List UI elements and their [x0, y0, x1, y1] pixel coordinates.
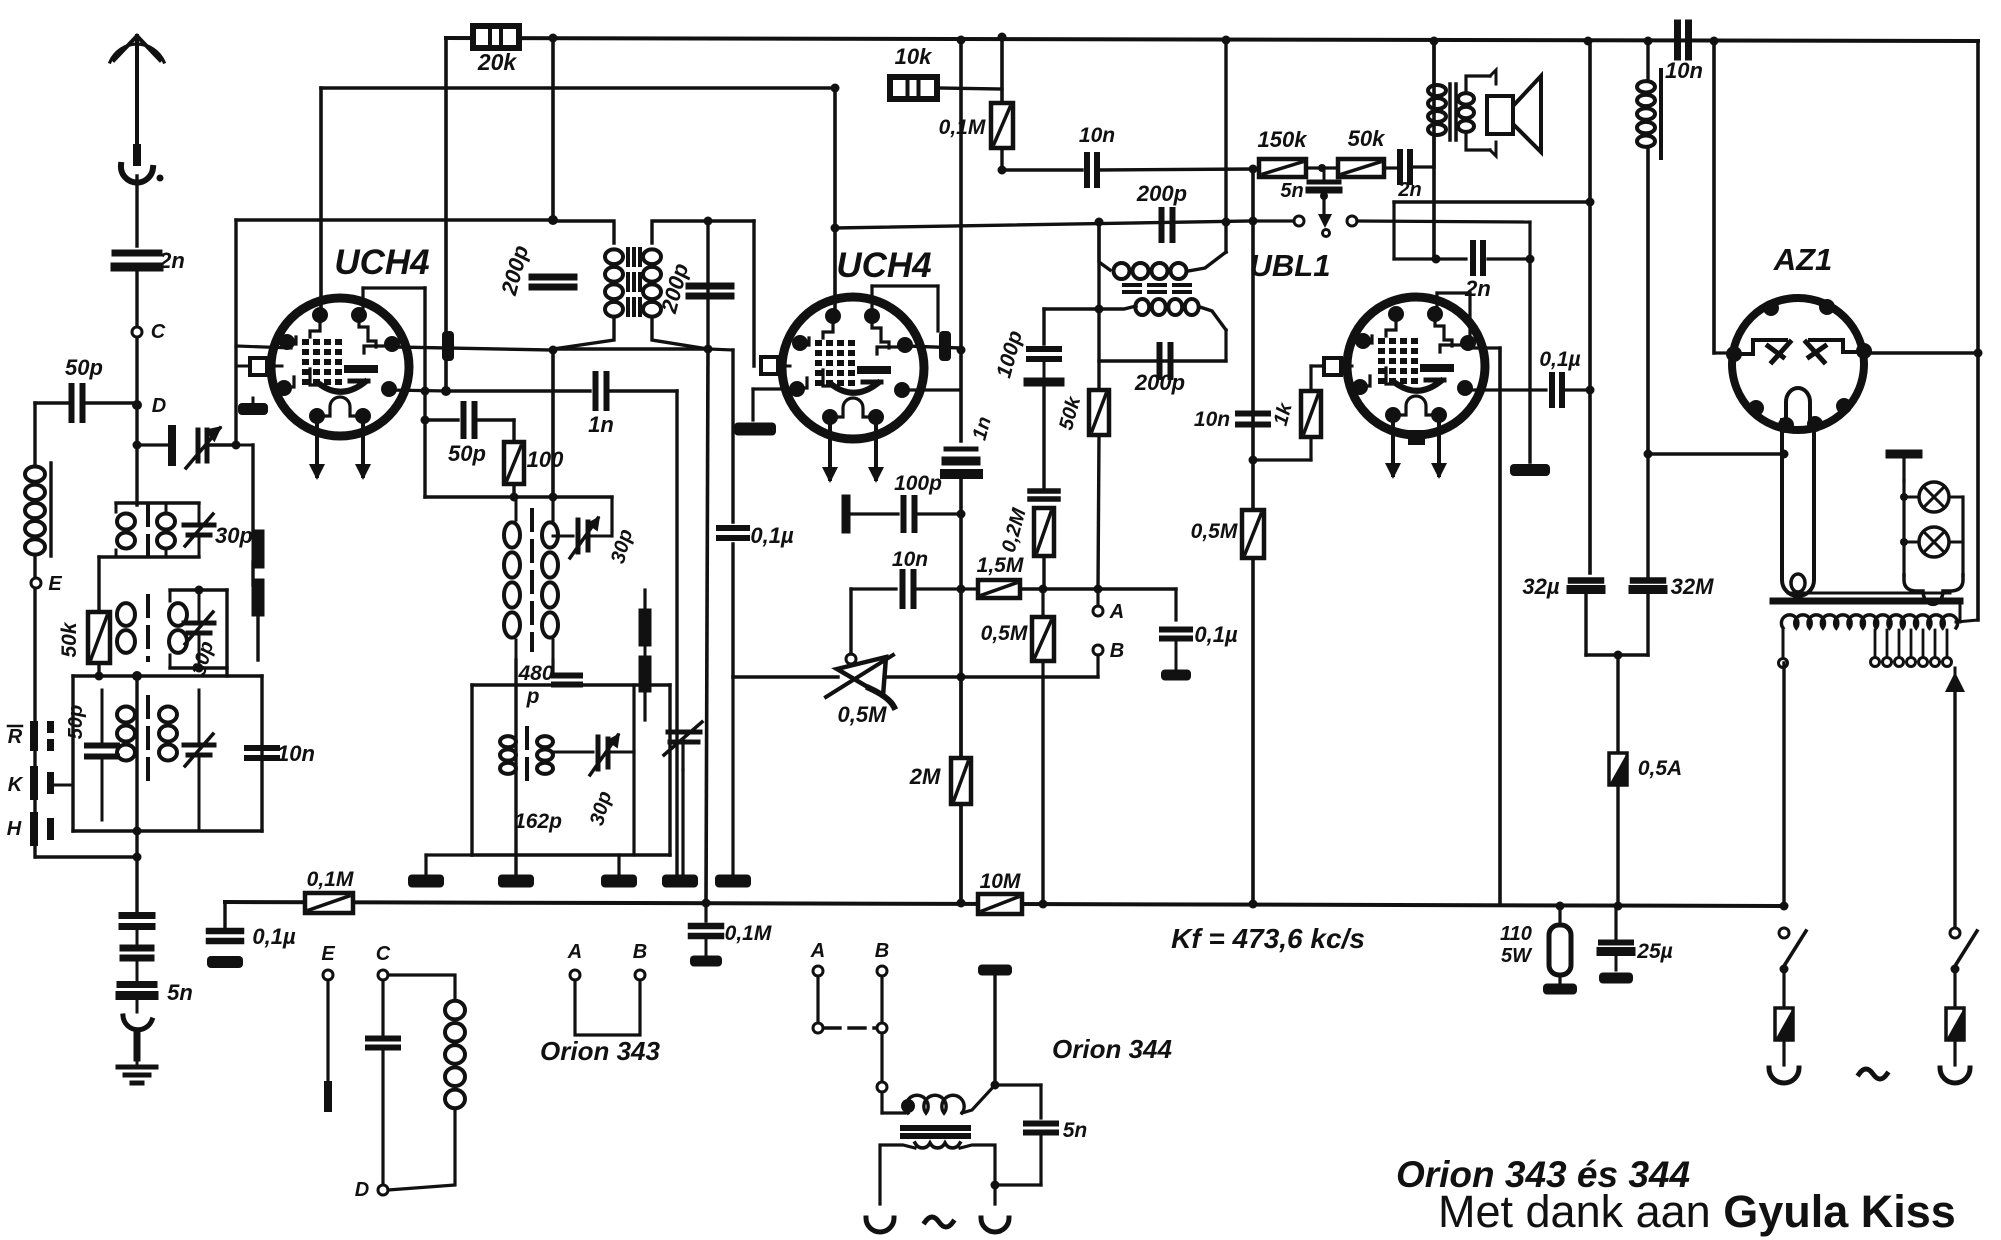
wire tube2 pi down: [936, 286, 939, 331]
wire tube1 pi down x425: [423, 288, 426, 497]
osc coil M2: [500, 736, 516, 747]
wire mains to rail: [1956, 620, 1978, 622]
wire 50p left: [35, 401, 71, 404]
wire 2n to x1434: [1411, 165, 1434, 168]
svg-text:200p: 200p: [1136, 181, 1187, 206]
svg-text:5n: 5n: [167, 980, 193, 1005]
wire C-D cap down: [381, 1048, 384, 1185]
ant transformer L2: [170, 588, 227, 591]
wire left column down: [135, 831, 138, 912]
capacitor 0,1M under bus: [691, 923, 721, 930]
svg-text:0,5M: 0,5M: [838, 702, 888, 727]
wire x1253 long vertical: [1251, 169, 1255, 903]
wire gang 1: [251, 445, 254, 533]
trimmer main tuning 2: [668, 730, 700, 735]
junction T1 top rail: [549, 34, 558, 43]
wire x1043 down: [1041, 677, 1044, 904]
svg-text:25µ: 25µ: [1636, 940, 1672, 963]
tube UCH4 #1 (U1): [271, 298, 409, 436]
chassis bar 2: [498, 875, 534, 888]
junction x425 y391: [421, 387, 430, 396]
tube UBL1 (U3) heater leads: [1391, 417, 1395, 475]
wire ubl1 cathode: [1464, 388, 1546, 391]
svg-text:UCH4: UCH4: [836, 246, 931, 285]
svg-text:A: A: [810, 940, 825, 962]
pot wiper terminal: [846, 654, 856, 664]
wire x1648 lower: [1646, 454, 1649, 578]
wire x1099 down: [1097, 222, 1100, 390]
node E terminal: [31, 578, 41, 588]
wire 0,5M res bottom: [1041, 661, 1044, 677]
wire M1 right down: [551, 660, 554, 676]
wire K to box: [54, 784, 73, 787]
junction T1 right top: [704, 217, 713, 226]
bar 344 top: [978, 965, 1012, 976]
junction bus x1253: [1249, 900, 1258, 909]
wire 10k right: [937, 88, 1002, 89]
wire E down to jack bus: [33, 589, 36, 857]
svg-text:110: 110: [1500, 923, 1532, 945]
wire 50k to A: [1098, 435, 1099, 589]
capacitor 25u: [1614, 906, 1617, 938]
svg-text:0,5A: 0,5A: [1638, 757, 1682, 780]
wire gang2 top: [643, 590, 646, 615]
svg-text:2n: 2n: [158, 248, 185, 273]
wire x1002: [1000, 37, 1004, 103]
wire L1 to 50k: [97, 557, 100, 612]
wire 0,2M down: [1042, 556, 1045, 589]
wire lamp top: [1902, 458, 1905, 481]
wire mains right down: [1953, 690, 1956, 930]
wire tube2 pi stub: [870, 286, 873, 314]
junction L2 bottom: [195, 664, 204, 673]
dial lamps bar: [1890, 450, 1918, 459]
junction x961 top: [957, 36, 966, 45]
wire main vertical through L3: [135, 676, 138, 831]
wire T2 to 100p: [1042, 309, 1045, 344]
wire mains right: [1959, 601, 1962, 622]
wire trimmer right: [592, 535, 612, 538]
wire ubl1 anode: [1466, 346, 1500, 349]
wire to x1590: [1563, 388, 1590, 391]
svg-text:B: B: [633, 941, 647, 963]
junction x1648 top: [1644, 37, 1653, 46]
wire D down to L1: [135, 405, 138, 505]
fuse mains 1: [1775, 1008, 1793, 1040]
svg-text:50p: 50p: [448, 441, 486, 466]
wire 5n down: [1322, 196, 1325, 221]
chassis bar 5: [715, 875, 751, 888]
wire 50k to 2n: [1384, 166, 1396, 169]
junction x1099 top: [1095, 218, 1104, 227]
capacitor 200p T1 left: [532, 274, 574, 281]
wire screen to tube2: [833, 88, 837, 314]
junction filament left: [1780, 450, 1789, 459]
resistor 50k left: [88, 612, 110, 663]
trimmer 30p L1: [184, 523, 214, 528]
bar 0,1u det: [1161, 670, 1191, 681]
ground left column: [118, 1065, 156, 1070]
anode bar tube 1: [442, 331, 454, 361]
wire x1394: [1392, 202, 1395, 259]
speaker frame: [1490, 70, 1496, 84]
grid box tube 1: [236, 218, 553, 221]
tube AZ1 (U4): [1732, 298, 1864, 430]
bar ubl1 ground: [1510, 464, 1550, 476]
wire tube1 triode grid: [389, 390, 446, 391]
junction x1714 top: [1710, 37, 1719, 46]
wire D to 50p: [86, 401, 137, 404]
junction x1434 y259: [1432, 255, 1441, 264]
svg-text:32µ: 32µ: [1522, 574, 1559, 599]
junction x835 y228: [831, 224, 840, 233]
wire long vertical x677: [675, 391, 678, 873]
jack R: [30, 721, 38, 751]
tube UBL1 (U3): [1347, 297, 1485, 435]
svg-text:0,1M: 0,1M: [307, 868, 354, 891]
trimmer 30p M1: [576, 520, 581, 552]
junction x1253 y169: [1249, 165, 1258, 174]
dial lamp wiring: [1902, 481, 1905, 575]
wire T1 right: [706, 221, 709, 349]
capacitor 2n antenna: [115, 250, 159, 257]
capacitor 200p T1 right: [689, 283, 731, 290]
wire B+ top rail: [446, 38, 1978, 41]
svg-text:0,1M: 0,1M: [725, 922, 772, 945]
capacitor left stack 2: [123, 945, 151, 952]
wire y259 right: [1488, 257, 1530, 260]
resistor 0,2M: [1034, 508, 1054, 556]
bar tube2 cathode: [734, 423, 776, 436]
wire: [136, 1058, 139, 1067]
grid cap square tube 2: [761, 357, 778, 374]
svg-text:K: K: [8, 774, 24, 796]
wire pickup right: [1357, 221, 1530, 222]
resistor 50k af: [1338, 159, 1384, 177]
wire wiper to 10n: [851, 587, 896, 590]
svg-text:0,5M: 0,5M: [1191, 520, 1238, 543]
svg-text:2n: 2n: [1464, 276, 1491, 301]
svg-text:10n: 10n: [1079, 124, 1115, 147]
capacitor 5n left: [120, 981, 154, 988]
wire grid pin tube1: [236, 346, 291, 348]
wire 1k down: [1309, 437, 1312, 460]
wire y228 T2 top: [835, 221, 1251, 228]
wire x733 to chassis: [731, 677, 734, 874]
capacitor 10n avc: [900, 572, 906, 606]
wire 20k branch down: [444, 38, 448, 391]
capacitor 100p grid2: [842, 499, 851, 529]
wire antenna to 2n: [135, 176, 138, 246]
capacitor 0,1u tube2 grid: [719, 525, 747, 531]
junction bus x706: [702, 899, 711, 908]
osc coil M1: [551, 497, 554, 520]
resistor 2M: [951, 758, 971, 804]
mains transformer core: [1773, 598, 1960, 605]
junction box bottom: [133, 827, 142, 836]
svg-text:0,1µ: 0,1µ: [1539, 348, 1580, 371]
wire B to y677: [1096, 655, 1099, 677]
anode bar tube 2: [939, 331, 951, 361]
svg-text:162p: 162p: [514, 810, 562, 833]
capacitor C-D: [368, 1036, 398, 1042]
wire shield box left: [71, 676, 74, 831]
wire AZ1 anode right: [1864, 351, 1978, 354]
wire: [136, 958, 139, 981]
svg-text:C: C: [151, 321, 166, 343]
junction 5n tap: [1318, 164, 1326, 172]
IF transformer T2: [1099, 222, 1110, 270]
svg-text:2n: 2n: [1397, 179, 1421, 201]
wire B+ to T1: [551, 37, 555, 220]
svg-text:0,1µ: 0,1µ: [750, 523, 794, 548]
wire L2 right down: [225, 590, 228, 676]
wire mains left tap: [1782, 628, 1785, 658]
svg-text:Orion 344: Orion 344: [1052, 1034, 1172, 1064]
wire grid cap drop tube2: [752, 221, 755, 366]
svg-text:B: B: [875, 940, 889, 962]
wire 32u down: [1584, 590, 1587, 655]
resistor 10k: [890, 77, 937, 99]
chassis bar 3: [601, 875, 637, 888]
wire x1714 down: [1712, 41, 1716, 353]
wire screen to tube1: [319, 88, 323, 312]
terminal 5n: [1323, 230, 1330, 237]
wire: [426, 853, 472, 856]
wire 100 down: [512, 484, 515, 497]
wire: [424, 855, 427, 874]
resistor 0,1M bus: [305, 893, 353, 913]
capacitor 200p T2 bottom: [1157, 345, 1163, 377]
capacitor 200p T2 top: [1159, 210, 1165, 240]
junction x1226 y222: [1222, 218, 1231, 227]
capacitor 10n mid: [1084, 155, 1090, 185]
capacitor left stack 1: [122, 912, 152, 919]
wire gang 1 down: [256, 610, 259, 660]
wire ground bus: [225, 902, 1784, 906]
svg-text:5W: 5W: [1501, 945, 1533, 967]
junction x1530: [1526, 255, 1535, 264]
capacitor 10n top right: [1674, 23, 1681, 57]
wire to 2M: [959, 677, 962, 758]
mains arrow: [1954, 668, 1957, 690]
ant transformer L3: [117, 707, 135, 723]
junction 5n bottom: [991, 1181, 1000, 1190]
wire 100p grid2: [851, 512, 898, 515]
wire coil to E: [33, 556, 36, 578]
svg-text:D: D: [152, 395, 166, 417]
wire to transformer: [880, 1092, 883, 1113]
wire M2 to trimmer: [553, 751, 593, 754]
resistor 20k: [473, 26, 519, 48]
capacitor 0,1u det: [1162, 627, 1190, 633]
wire switch1 to fuse: [1782, 969, 1785, 1008]
svg-text:100p: 100p: [894, 472, 942, 495]
junction 1n wire: [441, 386, 451, 396]
junction bus fuse: [1614, 902, 1623, 911]
svg-text:R: R: [8, 726, 23, 748]
resistor 0,5M mid: [1032, 617, 1054, 661]
wire ubl1 pi down: [1468, 293, 1471, 347]
svg-text:10n: 10n: [1665, 58, 1703, 83]
junction x961 y514: [957, 510, 966, 519]
wire primary right up: [993, 970, 996, 1085]
antenna coil L: [25, 466, 45, 481]
wire wiper up: [849, 589, 852, 654]
resistor 50k mid: [1089, 390, 1109, 435]
trimmer main tuning 1: [168, 429, 176, 462]
junction x1099 y309: [1095, 305, 1104, 314]
wire bus left end: [223, 902, 226, 930]
arrow 5n: [1318, 214, 1332, 228]
junction x1002 top: [998, 33, 1007, 42]
choke coil top right: [1646, 41, 1649, 78]
wire y170 left: [1002, 168, 1082, 171]
svg-text:50p: 50p: [65, 705, 87, 739]
svg-text:1n: 1n: [588, 412, 614, 437]
fuse 0,5A: [1609, 753, 1627, 785]
ant transformer L1: [116, 501, 199, 504]
fuse mains 2: [1946, 1008, 1964, 1040]
resistor 1k: [1301, 391, 1321, 437]
junction x1226 top: [1222, 36, 1231, 45]
pickup terminal right: [1347, 216, 1357, 226]
wire y677: [885, 675, 1098, 678]
junction D column y445: [133, 441, 142, 450]
antenna plug connector: [133, 148, 141, 162]
wire x1434: [1432, 41, 1436, 259]
jack K: [30, 766, 38, 800]
switch 1: [1779, 928, 1789, 938]
junction x425 y420: [421, 416, 430, 425]
capacitor 50p osc: [461, 404, 467, 436]
wire A stub: [1096, 589, 1099, 606]
wire 10n right: [1689, 40, 1714, 41]
wire ubl1 pi top: [1437, 291, 1470, 294]
svg-text:Kf = 473,6 kc/s: Kf = 473,6 kc/s: [1171, 923, 1365, 954]
wire tube2 pi top: [872, 284, 938, 287]
wire T2 right down: [1224, 330, 1227, 361]
wire to gang 1: [236, 444, 253, 447]
wire y259 left: [1394, 257, 1466, 260]
wire M1 left down: [514, 660, 517, 873]
capacitor 480p: [554, 673, 580, 679]
svg-text:10n: 10n: [1194, 408, 1230, 431]
junction 5n top: [991, 1081, 1000, 1090]
tube UCH4 #1 (U1) heater leads: [315, 418, 319, 476]
svg-text:10M: 10M: [980, 870, 1021, 893]
wire shield box top: [73, 674, 262, 677]
svg-text:200p: 200p: [1134, 370, 1185, 395]
junction anode T1: [549, 346, 558, 355]
wire osc anode down: [551, 349, 555, 497]
coil C-D: [388, 975, 455, 999]
capacitor 0,1u ubl1: [1549, 375, 1555, 405]
junction x1253 y460: [1249, 456, 1258, 465]
trimmer 30p L3: [184, 743, 214, 748]
wire 10n to 1,5M: [914, 587, 978, 590]
junction T1 top: [548, 215, 558, 225]
wire M2 trimmer down: [632, 752, 635, 855]
wire down to 0,1u: [1174, 589, 1177, 620]
capacitor 10n ubl1 grid: [1238, 411, 1268, 417]
wire 150k to 50k: [1306, 166, 1338, 169]
svg-text:UCH4: UCH4: [334, 243, 429, 282]
wire to fuse: [1616, 655, 1619, 753]
svg-text:D: D: [355, 1179, 369, 1201]
junction x1253 y221: [1249, 217, 1258, 226]
wire T1 to x733: [708, 349, 733, 350]
wire bus cap: [704, 903, 707, 921]
svg-text:50k: 50k: [1348, 126, 1386, 151]
pickup terminal left: [1294, 216, 1304, 226]
capacitor 0,1u left: [209, 928, 241, 935]
wire jack bottom bus: [36, 855, 137, 858]
svg-text:A: A: [1109, 601, 1124, 623]
junction osc top: [549, 493, 558, 502]
wire down to antenna coil: [33, 403, 36, 465]
capacitor 50p antenna: [69, 386, 75, 420]
wire x1500 down to bus: [1498, 348, 1502, 903]
wire x1226: [1224, 40, 1227, 252]
svg-text:2M: 2M: [909, 764, 941, 789]
wire x1590: [1588, 41, 1592, 573]
antenna: [135, 36, 139, 148]
tuning gang capacitor 2: [639, 615, 652, 640]
wire 100p to 0,2M: [1042, 387, 1045, 489]
capacitor at 0,2M: [1030, 488, 1058, 494]
svg-text:10n: 10n: [277, 741, 315, 766]
mains transformer 344 secondary: [915, 1143, 960, 1148]
antenna coil core bar: [49, 463, 52, 556]
svg-text:50k: 50k: [58, 621, 81, 657]
junction y655: [1614, 651, 1623, 660]
wire grid to 1k: [1311, 364, 1324, 367]
node D junction: [132, 400, 142, 410]
wire 50k to box: [97, 663, 100, 676]
svg-text:0,5M: 0,5M: [981, 622, 1028, 645]
jack H: [30, 812, 38, 846]
wire 50p to 100: [475, 418, 514, 421]
capacitor 2n ubl1: [1470, 243, 1476, 273]
wire x1530 down: [1528, 259, 1531, 462]
wire tube1 pi top: [363, 286, 425, 289]
junction x1590 y202: [1586, 198, 1595, 207]
junction x1648 y454: [1644, 450, 1653, 459]
wire shield box bottom: [73, 829, 262, 832]
wire fuse to bus: [1616, 785, 1619, 906]
capacitor 32u: [1571, 577, 1601, 584]
wire trimmer to top: [610, 497, 613, 536]
wire shield box right: [260, 676, 263, 831]
junction bus 10M right: [1039, 900, 1048, 909]
wire 50p L3 bottom: [101, 757, 104, 820]
plug pins 344: [866, 1218, 894, 1232]
wire: [1041, 589, 1044, 617]
wire to trimmer: [137, 443, 168, 446]
svg-text:Orion 343: Orion 343: [540, 1036, 660, 1066]
svg-text:10k: 10k: [895, 44, 933, 69]
capacitor 2n top: [1397, 152, 1403, 182]
node C terminal: [132, 327, 142, 337]
junction x1434 top: [1430, 37, 1439, 46]
output transformer primary: [1432, 41, 1435, 82]
IF transformer T1: [553, 221, 614, 243]
wire to 1n: [446, 389, 590, 392]
plug pin 1: [1769, 1068, 1799, 1083]
wire 1k to x1253: [1253, 458, 1311, 461]
wire to AZ1: [1714, 351, 1733, 354]
